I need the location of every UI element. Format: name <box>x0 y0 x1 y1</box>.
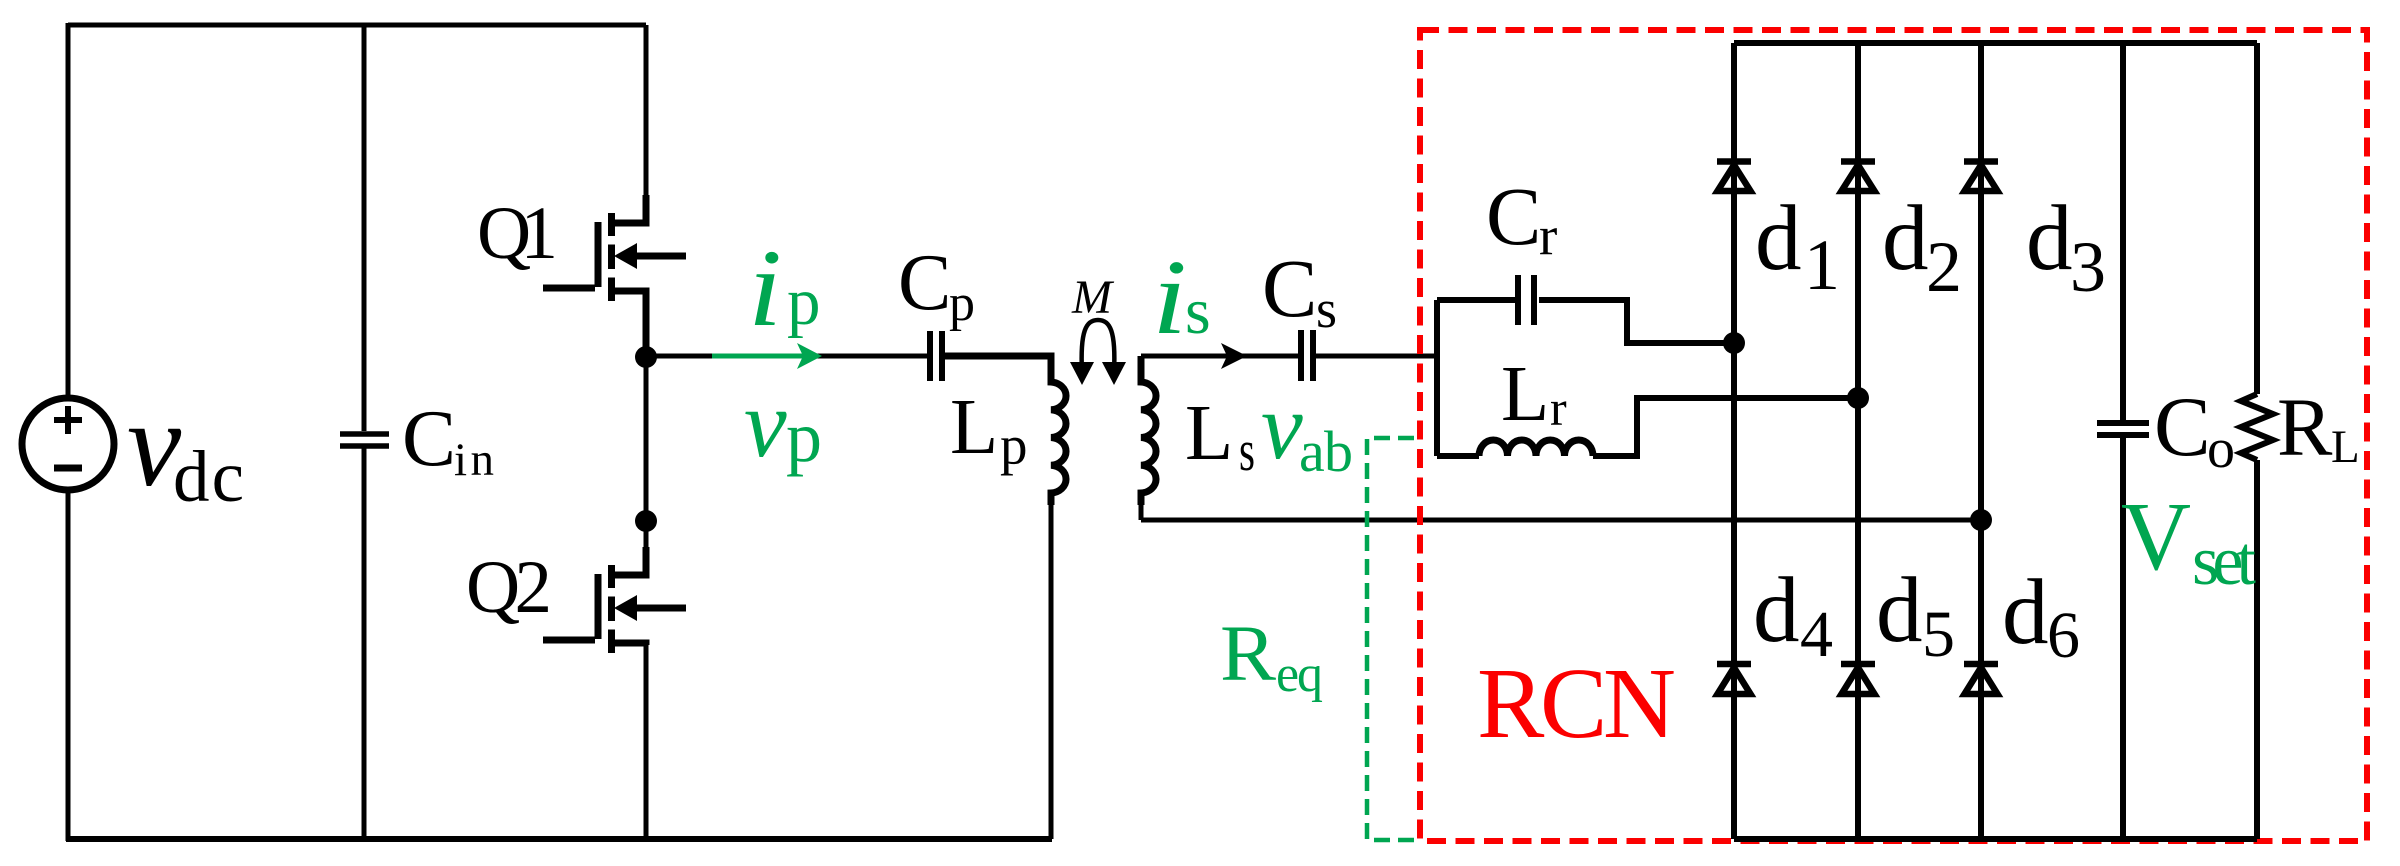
svg-text:v: v <box>744 370 787 477</box>
svg-text:C: C <box>898 239 951 327</box>
svg-text:i: i <box>748 227 782 349</box>
svg-text:p: p <box>787 265 821 339</box>
svg-text:p: p <box>1000 415 1028 476</box>
svg-text:s: s <box>1239 418 1255 483</box>
svg-text:V: V <box>2121 483 2191 590</box>
svg-text:M: M <box>1071 271 1115 324</box>
svg-text:p: p <box>949 275 975 332</box>
svg-text:R: R <box>1220 611 1276 698</box>
svg-text:L: L <box>1185 390 1233 477</box>
svg-text:C: C <box>2154 380 2211 474</box>
svg-text:d: d <box>1876 559 1923 662</box>
svg-text:6: 6 <box>2047 599 2080 672</box>
svg-text:3: 3 <box>2070 227 2106 307</box>
svg-text:s: s <box>1316 279 1337 339</box>
svg-text:r: r <box>1550 380 1567 436</box>
svg-text:L: L <box>1501 351 1549 438</box>
svg-text:R: R <box>2277 381 2333 473</box>
svg-text:C: C <box>402 393 456 483</box>
svg-text:d: d <box>1882 187 1929 290</box>
svg-text:p: p <box>786 397 822 477</box>
svg-text:Q1: Q1 <box>477 192 558 275</box>
svg-text:r: r <box>1539 205 1557 266</box>
svg-text:d: d <box>1755 187 1802 290</box>
svg-text:eq: eq <box>1276 646 1323 703</box>
svg-text:i: i <box>1152 239 1187 357</box>
svg-text:C: C <box>1486 170 1541 262</box>
svg-text:L: L <box>2331 421 2360 473</box>
svg-text:C: C <box>1262 242 1317 334</box>
svg-text:4: 4 <box>1800 598 1833 671</box>
svg-text:s: s <box>1185 275 1211 348</box>
svg-text:5: 5 <box>1922 598 1955 671</box>
svg-text:dc: dc <box>173 436 244 517</box>
svg-text:in: in <box>454 434 494 486</box>
svg-text:RCN: RCN <box>1477 647 1676 759</box>
svg-text:1: 1 <box>1804 225 1840 305</box>
svg-text:set: set <box>2192 523 2257 600</box>
svg-text:o: o <box>2207 418 2235 480</box>
svg-text:d: d <box>2026 187 2073 290</box>
svg-text:2: 2 <box>1926 227 1962 307</box>
svg-text:d: d <box>2002 561 2049 664</box>
svg-text:v: v <box>1261 375 1303 479</box>
svg-text:L: L <box>950 384 998 471</box>
svg-text:Q2: Q2 <box>466 546 552 629</box>
svg-text:ab: ab <box>1299 419 1353 484</box>
svg-text:d: d <box>1753 559 1800 662</box>
